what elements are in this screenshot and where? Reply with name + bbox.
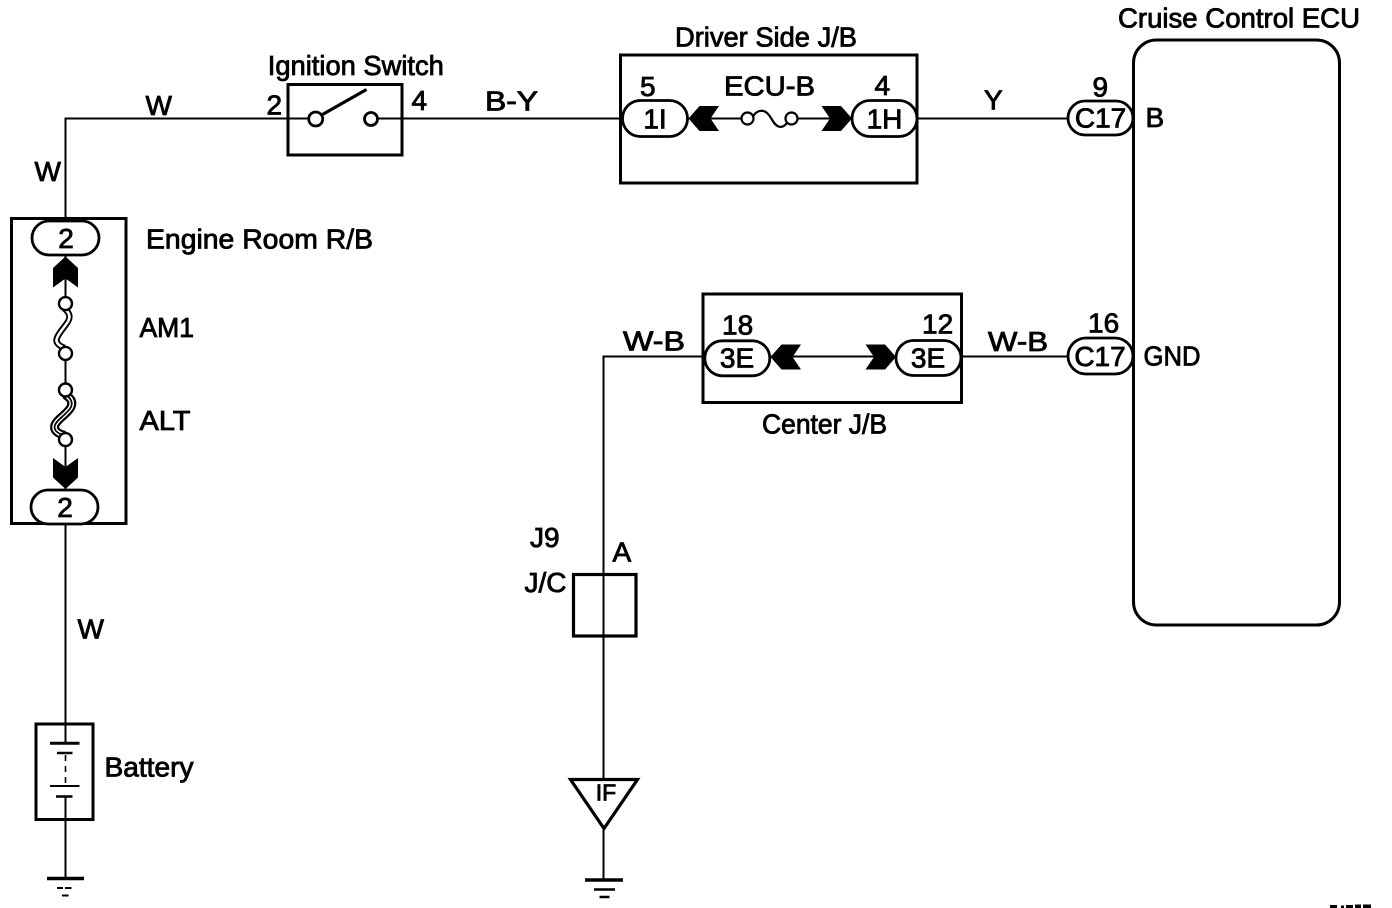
connector oval 3E left [705, 341, 770, 376]
wire IF apex to ground [603, 828, 605, 879]
battery plate long positive 2 [50, 785, 80, 787]
ignition switch contact right [365, 113, 378, 126]
svg-text:W-B: W-B [988, 326, 1048, 357]
svg-text:C17: C17 [1074, 341, 1125, 372]
Center J/B box [703, 294, 962, 403]
wire B-Y from ignition switch pin 4 to fuse [377, 118, 742, 120]
fuse terminal left [742, 113, 754, 125]
ground symbol below battery [47, 877, 84, 881]
svg-text:W: W [146, 90, 173, 121]
connector oval 2 bottom of Engine Room R/B [31, 490, 98, 524]
clipped print artifact bottom right [1330, 905, 1371, 908]
wire between fusible links [65, 353, 67, 391]
svg-text:1H: 1H [867, 104, 903, 135]
battery plate long positive [50, 742, 80, 745]
connector oval 3E right [896, 341, 961, 376]
svg-text:Ignition Switch: Ignition Switch [268, 50, 444, 81]
svg-text:2: 2 [267, 90, 283, 121]
svg-text:B-Y: B-Y [485, 86, 538, 117]
svg-text:5: 5 [640, 71, 656, 102]
svg-text:Battery: Battery [105, 752, 194, 783]
svg-text:Engine Room R/B: Engine Room R/B [146, 224, 373, 255]
svg-text:J/C: J/C [525, 567, 567, 598]
svg-text:ECU-B: ECU-B [724, 71, 815, 102]
svg-text:W: W [78, 614, 105, 645]
wire W from battery branch corner to ignition switch pin 2 [66, 119, 310, 223]
arrow up in Engine Room R/B [53, 257, 78, 288]
connector oval C17 pin 16 [1068, 338, 1133, 374]
svg-text:3E: 3E [720, 343, 754, 374]
arrow left at 1I [689, 106, 720, 131]
fuse terminal right [786, 113, 798, 125]
svg-text:4: 4 [412, 85, 428, 116]
svg-text:W-B: W-B [623, 326, 685, 357]
fuse ECU-B wavy element [753, 111, 789, 127]
fusible link ALT terminal top [59, 384, 72, 397]
junction connector J9 J/C square [574, 575, 637, 637]
svg-text:ALT: ALT [140, 405, 191, 436]
ignition switch lever [323, 90, 367, 115]
Ignition Switch box [288, 85, 402, 156]
svg-text:C17: C17 [1075, 103, 1126, 134]
svg-text:A: A [613, 537, 632, 568]
svg-text:IF: IF [596, 780, 616, 806]
svg-text:B: B [1146, 102, 1165, 133]
arrow down in Engine Room R/B [53, 458, 78, 489]
svg-text:Driver Side J/B: Driver Side J/B [675, 22, 857, 53]
arrow left at 3E left [771, 345, 802, 370]
ground triangle IF [571, 780, 638, 829]
svg-text:Center J/B: Center J/B [762, 409, 887, 440]
connector oval 1I [623, 101, 688, 137]
wire W down Engine Room R/B internals [65, 255, 67, 303]
svg-text:18: 18 [722, 310, 753, 341]
wire W-B from Center J/B left down to IF triangle [604, 357, 705, 780]
fusible link ALT squiggle [55, 395, 72, 436]
svg-text:Y: Y [984, 85, 1003, 116]
arrow right at 3E right [866, 345, 897, 370]
svg-text:W: W [35, 156, 62, 187]
ignition switch contact left [309, 112, 323, 126]
svg-text:16: 16 [1088, 308, 1119, 339]
Battery box [36, 724, 93, 820]
connector oval 2 top of Engine Room R/B [32, 221, 99, 255]
svg-text:4: 4 [875, 70, 891, 101]
fusible link AM1 terminal top [59, 297, 72, 310]
svg-text:GND: GND [1144, 341, 1201, 372]
arrow right at 1H [822, 106, 853, 131]
svg-text:1I: 1I [643, 104, 666, 135]
wire W-B Center J/B to C17 pin 16 [770, 356, 1069, 358]
battery plate short negative [57, 752, 73, 755]
Engine Room R/B box [12, 219, 127, 524]
svg-text:2: 2 [57, 492, 73, 523]
svg-text:Cruise Control ECU: Cruise Control ECU [1118, 3, 1360, 34]
svg-text:9: 9 [1093, 72, 1109, 103]
battery internal dashed wire [65, 755, 67, 784]
fusible link AM1 squiggle [57, 309, 70, 349]
svg-text:J9: J9 [530, 522, 560, 553]
wire battery to ground [65, 797, 67, 877]
svg-text:12: 12 [922, 309, 953, 340]
fusible link AM1 terminal bottom [59, 347, 72, 360]
battery plate short negative 2 [56, 795, 73, 798]
ground symbol below IF [585, 878, 623, 882]
Driver Side J/B box [621, 55, 918, 183]
wire Y from fuse to C17 pin 9 [797, 118, 1069, 120]
connector oval C17 pin 9 [1068, 101, 1133, 135]
svg-text:2: 2 [58, 223, 74, 254]
fusible link ALT terminal bottom [59, 433, 72, 446]
connector oval 1H [852, 101, 917, 137]
Cruise Control ECU box [1134, 40, 1340, 625]
svg-text:AM1: AM1 [140, 312, 195, 343]
svg-text:3E: 3E [911, 343, 945, 374]
wire W from ALT link to battery [65, 439, 67, 743]
